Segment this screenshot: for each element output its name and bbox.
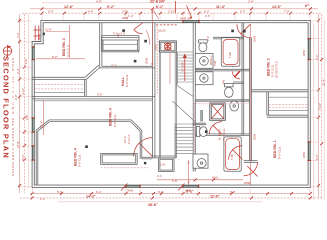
svg-text:W/ SCUTTLE: W/ SCUTTLE bbox=[275, 61, 279, 78]
svg-text:9'-0" CLG.: 9'-0" CLG. bbox=[125, 74, 129, 87]
svg-text:3'-10": 3'-10" bbox=[318, 103, 322, 110]
interior wall: closet band wall bbox=[32, 97, 155, 99]
room label BR3 top-left bbox=[62, 38, 70, 57]
svg-text:5'x8': 5'x8' bbox=[213, 60, 217, 66]
right dimension line 1 (partial) bbox=[312, 23, 314, 200]
window right W4 bbox=[307, 39, 311, 60]
interior wall: closet top wall bbox=[252, 90, 309, 92]
left dimension line 1 bbox=[19, 14, 21, 193]
interior wall: bedroom/stair west wall bbox=[153, 23, 155, 158]
BR4 inner wall left bbox=[36, 130, 38, 185]
svg-text:1'-2: 1'-2 bbox=[40, 197, 45, 201]
interior wall: BR1 north wall piece bbox=[244, 160, 258, 162]
window top W6 bbox=[183, 20, 199, 24]
svg-text:3'-6": 3'-6" bbox=[248, 0, 254, 4]
svg-text:2'-0: 2'-0 bbox=[157, 174, 162, 178]
stairs: center stringer bbox=[176, 52, 177, 85]
closet right rod dashes bbox=[269, 96, 308, 98]
BR4 chamfer right bbox=[131, 120, 142, 131]
BR4 chamfer left bbox=[36, 120, 50, 132]
svg-text:SECOND FLOOR PLAN: SECOND FLOOR PLAN bbox=[2, 56, 11, 159]
svg-text:2668: 2668 bbox=[253, 133, 257, 140]
svg-text:22x30: 22x30 bbox=[158, 29, 166, 33]
svg-text:3040: 3040 bbox=[37, 33, 41, 40]
interior wall: closet bottom wall bbox=[267, 115, 308, 117]
dim extension lines left bbox=[20, 21, 32, 187]
stairs: lower flight treads bbox=[175, 124, 193, 154]
bath B toilet bbox=[225, 84, 234, 98]
red wall hatch dashes bbox=[193, 103, 195, 171]
shaft red dashes bbox=[156, 26, 158, 95]
svg-text:7'-0": 7'-0" bbox=[284, 10, 290, 14]
stairs: red dashes above stairwell bbox=[156, 24, 177, 26]
svg-text:2'-6": 2'-6" bbox=[205, 14, 211, 18]
tub A alcove wall bbox=[213, 37, 244, 39]
shower bbox=[210, 103, 226, 120]
svg-text:4'-0": 4'-0" bbox=[97, 93, 103, 97]
smoke detector dot 3 bbox=[231, 30, 234, 33]
stairs: lower stringer bbox=[175, 124, 176, 157]
door D2 (bedroom 2) bbox=[237, 24, 251, 38]
svg-text:22'-8 3/4": 22'-8 3/4" bbox=[150, 0, 166, 4]
svg-text:B: B bbox=[117, 34, 119, 38]
svg-text:SCALE : 1/4" = 1'-0" U.N.O.: SCALE : 1/4" = 1'-0" U.N.O. SEE SHEET A-… bbox=[11, 58, 15, 177]
top-center closet millwork bbox=[102, 36, 140, 52]
svg-text:9'-0" CLG.: 9'-0" CLG. bbox=[277, 146, 281, 159]
bath C toilet 2 bbox=[197, 127, 208, 137]
svg-text:9'-0" CLG.: 9'-0" CLG. bbox=[113, 114, 117, 127]
svg-text:3050: 3050 bbox=[302, 49, 306, 56]
svg-text:UP 15R: UP 15R bbox=[181, 62, 185, 72]
door D1 (top-center room) bbox=[134, 23, 150, 45]
right dimension line 4 bbox=[324, 20, 326, 200]
svg-text:2'-10": 2'-10" bbox=[168, 10, 175, 14]
room label BR4 lower bbox=[74, 148, 82, 167]
window left W1 bbox=[31, 47, 35, 60]
bath D tub bbox=[224, 137, 241, 171]
leader at window W6 bbox=[175, 1, 177, 13]
svg-text:12'-0": 12'-0" bbox=[210, 194, 220, 198]
svg-text:2668: 2668 bbox=[244, 181, 251, 185]
interior wall: hall south wall bbox=[153, 156, 177, 158]
stairs: break lines bbox=[173, 85, 196, 122]
bottom dimension line 1 bbox=[30, 193, 311, 195]
svg-text:11'-4": 11'-4" bbox=[216, 5, 226, 9]
stairs: upper flight treads bbox=[178, 52, 194, 82]
window bottom W7 bbox=[126, 184, 140, 188]
bath B sink bbox=[195, 72, 213, 85]
notch window red marks bbox=[34, 26, 41, 41]
svg-text:3'-6": 3'-6" bbox=[21, 154, 25, 160]
linen closet bbox=[159, 158, 175, 172]
svg-text:HALL: HALL bbox=[212, 176, 219, 180]
door D5 (bedroom 3 lower-left) bbox=[134, 138, 153, 157]
svg-text:15'-8": 15'-8" bbox=[16, 141, 20, 148]
BR4 inner wall top bbox=[49, 120, 131, 122]
BR4 inner wall right bbox=[140, 130, 142, 159]
top dimension line 3 (dashed) bbox=[22, 12, 322, 14]
closet band end wall bbox=[85, 79, 87, 96]
svg-text:6'-2": 6'-2" bbox=[204, 10, 210, 14]
svg-text:TUB: TUB bbox=[230, 154, 234, 160]
svg-text:9'-2": 9'-2" bbox=[52, 55, 58, 59]
right dim ticks bbox=[317, 19, 323, 187]
svg-text:7'-2": 7'-2" bbox=[16, 32, 20, 38]
dim extension lines right bbox=[311, 21, 319, 187]
left dim ticks bbox=[18, 19, 26, 187]
room label BR4 upper bbox=[109, 108, 117, 127]
interior red dim: hall vertical bbox=[151, 9, 153, 67]
svg-text:3040: 3040 bbox=[127, 189, 134, 193]
svg-text:4'-11": 4'-11" bbox=[21, 88, 25, 95]
interior wall: BR3 bottom wall bbox=[32, 77, 86, 79]
svg-text:6'-8 x 2': 6'-8 x 2' bbox=[127, 134, 131, 144]
bath A toilet bbox=[199, 40, 208, 52]
top dimension line 1 bbox=[42, 2, 310, 4]
bath C wall piece bbox=[193, 123, 207, 125]
door arc to bath C bbox=[209, 122, 222, 135]
interior wall: stair east wall bbox=[193, 23, 195, 172]
stairs: up arrow bbox=[183, 55, 186, 82]
svg-text:23'-4": 23'-4" bbox=[321, 79, 325, 86]
bottom dim ticks bbox=[31, 192, 312, 199]
bath A tub bbox=[221, 38, 240, 66]
red leaders at bottom windows bbox=[121, 184, 185, 191]
outer wall outline (inner face) bbox=[34, 23, 308, 185]
door D3 (bath B) bbox=[232, 71, 240, 79]
left dimension line 2 (dashed) bbox=[23, 14, 25, 193]
svg-text:14'-0": 14'-0" bbox=[272, 5, 282, 9]
svg-text:3050: 3050 bbox=[302, 151, 306, 158]
svg-text:28'-6": 28'-6" bbox=[148, 203, 158, 207]
interior wall: closet left wall bbox=[267, 92, 269, 115]
door D4 (bath D) bbox=[229, 146, 243, 160]
bath C toilet bbox=[230, 101, 239, 111]
svg-text:9'-2": 9'-2" bbox=[107, 5, 115, 9]
svg-text:9'-2": 9'-2" bbox=[315, 154, 319, 160]
stair shaft rails bbox=[159, 52, 176, 158]
svg-text:11'-6": 11'-6" bbox=[45, 28, 52, 32]
room label BR2 right bbox=[267, 58, 279, 78]
window right W5 bbox=[307, 142, 311, 161]
right dimension line 3 (dashed) bbox=[321, 14, 323, 198]
smoke detector dot 2 bbox=[134, 60, 137, 63]
svg-text:2'-8: 2'-8 bbox=[206, 36, 210, 41]
pocket door teal segment bbox=[201, 110, 202, 122]
interior wall: corridor wall bbox=[250, 38, 252, 162]
interior wall: hall top wall bbox=[100, 66, 155, 68]
window left W2 bbox=[31, 118, 35, 132]
svg-text:LIN: LIN bbox=[161, 163, 165, 167]
svg-text:9'-8": 9'-8" bbox=[24, 58, 28, 64]
black dot near hall bbox=[144, 40, 147, 43]
svg-text:1'-4": 1'-4" bbox=[128, 14, 134, 18]
svg-text:5'-6": 5'-6" bbox=[57, 190, 63, 194]
smoke detector dot bbox=[122, 29, 125, 32]
svg-text:9'-8": 9'-8" bbox=[230, 190, 236, 194]
svg-text:9'-0" CLG.: 9'-0" CLG. bbox=[78, 154, 82, 167]
dim extension lines bottom bbox=[33, 188, 311, 193]
north/title bubble symbol bbox=[3, 45, 12, 58]
dark dot on toilet bbox=[205, 130, 207, 133]
svg-text:14'-2": 14'-2" bbox=[86, 194, 96, 198]
bottom dimension line 2 (dashed) bbox=[20, 197, 323, 199]
top dimension line 2 bbox=[30, 8, 318, 10]
svg-text:2668: 2668 bbox=[122, 16, 129, 20]
shelf line under band wall bbox=[34, 100, 152, 102]
svg-text:12'-6": 12'-6" bbox=[64, 5, 74, 9]
svg-text:2'-8": 2'-8" bbox=[25, 114, 29, 120]
svg-text:3040: 3040 bbox=[185, 189, 192, 193]
stairs: attic fan box bbox=[159, 41, 176, 52]
interior wall: toilet B niche wall bbox=[233, 82, 244, 83]
svg-text:6'-4": 6'-4" bbox=[16, 68, 20, 74]
left dimension line 3 bbox=[28, 14, 30, 188]
top leader arrows to stair window bbox=[187, 6, 193, 19]
smoke detector dot 5 bbox=[85, 145, 88, 148]
closet band rod dashes bbox=[35, 85, 85, 89]
svg-text:5'-0 x 2'-0: 5'-0 x 2'-0 bbox=[113, 32, 126, 36]
interior wall: BR3 right wall bbox=[100, 23, 102, 68]
svg-text:5'-3": 5'-3" bbox=[158, 190, 164, 194]
BR4 closet rod dash bbox=[101, 167, 148, 169]
interior red dim: hall south bbox=[157, 179, 243, 181]
svg-text:6'-1": 6'-1" bbox=[156, 5, 164, 9]
dark dot at notch bbox=[43, 33, 45, 36]
BR4 south wall piece bbox=[142, 157, 153, 159]
bath A vanity bbox=[195, 54, 213, 69]
outer wall outline (outer face) bbox=[32, 20, 310, 187]
interior wall: bath wall B/C bbox=[195, 100, 250, 101]
window left W3 bbox=[31, 146, 35, 160]
interior wall: chamfer corner bbox=[85, 65, 100, 79]
svg-text:2668: 2668 bbox=[253, 35, 257, 42]
svg-text:TUB: TUB bbox=[228, 52, 232, 58]
smoke detector dot 4 bbox=[243, 30, 246, 33]
right dimension line 2 bbox=[318, 14, 320, 198]
top dim ticks bbox=[41, 7, 312, 14]
room label top-center bbox=[121, 74, 129, 87]
dim extension lines top bbox=[42, 14, 310, 20]
interior wall: bath wall C/D bbox=[195, 134, 250, 136]
svg-text:5'-4": 5'-4" bbox=[240, 10, 246, 14]
bottom dimension line 3 bbox=[58, 201, 262, 203]
window bottom W8 bbox=[183, 184, 199, 188]
interior red dim: left bedroom vertical bbox=[43, 100, 45, 135]
interior red dim: hall vertical 2 bbox=[188, 160, 190, 185]
svg-text:6'-4": 6'-4" bbox=[96, 190, 102, 194]
smoke detector dot 6 bbox=[144, 162, 146, 164]
interior red dim: bath C horizontal bbox=[196, 103, 249, 105]
svg-text:3'-2": 3'-2" bbox=[111, 63, 117, 67]
corridor wall red centerline bbox=[250, 24, 252, 186]
svg-text:12'-4": 12'-4" bbox=[40, 121, 44, 128]
room label BR1 right bbox=[273, 140, 281, 159]
interior wall: bath wall A/B bbox=[195, 69, 250, 71]
svg-text:2068: 2068 bbox=[145, 57, 149, 64]
stairs: red dim in stairwell bbox=[169, 52, 171, 84]
BR4 closet shelf box bbox=[101, 153, 138, 164]
svg-text:4'-8": 4'-8" bbox=[96, 0, 102, 4]
svg-text:5'-0": 5'-0" bbox=[48, 10, 54, 14]
door D6 (bedroom 1 lower-right) bbox=[244, 162, 258, 177]
interior wall: bath east wall bbox=[242, 23, 244, 136]
svg-text:4'-6": 4'-6" bbox=[88, 10, 94, 14]
svg-text:3'-0": 3'-0" bbox=[14, 94, 18, 100]
bath D vanity bbox=[193, 154, 208, 168]
interior red dim: BR3 vertical bbox=[69, 25, 71, 58]
interior red dim: BR3 under window bbox=[36, 58, 85, 60]
svg-text:5040 SH: 5040 SH bbox=[180, 17, 191, 21]
